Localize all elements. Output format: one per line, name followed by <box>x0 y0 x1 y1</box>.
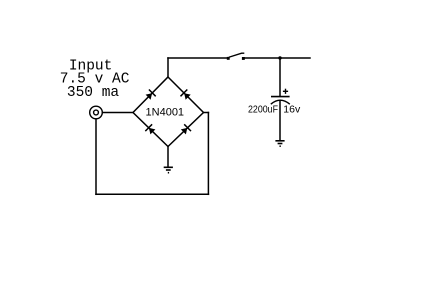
label: input description text <box>60 58 130 101</box>
bridge rectifier diamond outline <box>133 77 204 147</box>
top plate <box>271 96 290 98</box>
wire: right vertical from bottom rail up to bridge right vertex <box>207 113 209 195</box>
ground (below capacitor) <box>275 141 284 146</box>
svg-text:350 ma: 350 ma <box>67 85 120 101</box>
node: junction of rail and capacitor <box>278 56 281 59</box>
diode D4 (bottom-right edge, cathode toward right AC node) <box>181 124 191 134</box>
switch S1 <box>227 53 245 60</box>
capacitor C1 (polarized 2200uF) <box>271 89 290 105</box>
switch terminal (left) <box>227 57 230 60</box>
svg-text:2200uF: 2200uF <box>248 104 278 116</box>
wire: stub from top rail down to bridge top vertex <box>167 58 169 77</box>
wire: capacitor bottom plate to ground <box>279 101 281 141</box>
diode D3 (bottom-left edge, cathode toward left AC node) <box>145 124 155 134</box>
wire: bridge bottom vertex to ground <box>167 147 169 167</box>
wire: connector sleeve down left side <box>95 119 97 194</box>
wire: bottom rail <box>96 193 208 195</box>
wire: top rail left segment (bridge + output to switch) <box>168 57 227 59</box>
diode D2 (right-top edge, cathode toward + top vertex) <box>181 90 191 100</box>
bottom curved plate <box>271 100 290 104</box>
wire: junction to capacitor top plate <box>279 58 281 96</box>
ground (below bridge) <box>164 167 173 172</box>
wire: stub right vertex <box>204 112 209 114</box>
switch terminal (right) <box>242 57 245 60</box>
+ polarity mark <box>283 90 288 92</box>
svg-text:16v: 16v <box>283 104 301 116</box>
switch lever <box>229 53 245 57</box>
wire: connector to bridge left vertex <box>103 112 134 114</box>
svg-text:1N4001: 1N4001 <box>146 107 185 119</box>
input jack connector J1 (coax) <box>90 106 103 119</box>
diode D1 (left-top edge, cathode toward + top vertex) <box>146 90 156 100</box>
wire: top rail right segment (switch to end) <box>245 57 311 59</box>
